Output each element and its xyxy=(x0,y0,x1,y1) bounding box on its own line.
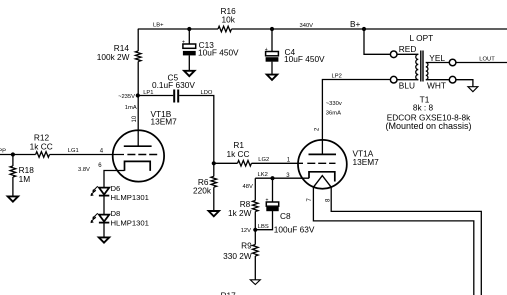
node LP1 junction dot xyxy=(136,93,140,97)
wire R9 leads xyxy=(254,230,256,280)
capacitor C8 xyxy=(266,197,279,211)
svg-text:48V: 48V xyxy=(243,184,253,190)
wire top rail LB+ to B+ and right edge xyxy=(138,28,507,30)
tube VT1B envelope xyxy=(113,130,164,181)
T1 secondary winding xyxy=(426,63,428,80)
terminal BLU xyxy=(390,76,397,83)
ground at WHT xyxy=(468,87,478,92)
resistor R6 xyxy=(211,176,217,187)
ground under C4 xyxy=(267,75,277,80)
svg-text:D6: D6 xyxy=(111,184,121,193)
VT1A filament xyxy=(313,176,331,188)
T1 core xyxy=(421,51,423,82)
svg-text:PP: PP xyxy=(0,149,6,155)
capacitor C13 xyxy=(182,39,196,55)
svg-text:13EM7: 13EM7 xyxy=(151,117,178,127)
label R12 value xyxy=(30,133,53,152)
svg-text:YEL: YEL xyxy=(429,53,445,63)
wire D6 to D8 xyxy=(103,196,105,215)
svg-text:HLMP1301: HLMP1301 xyxy=(111,218,149,227)
resistor R18 xyxy=(10,166,16,177)
junction dot LBS xyxy=(253,228,257,232)
wire C13 leads xyxy=(188,29,190,71)
wire BLU to primary xyxy=(397,79,418,81)
node LP1 label xyxy=(143,90,153,96)
wire LG2 net xyxy=(214,162,303,164)
label R16 value xyxy=(221,6,237,25)
label VT1B xyxy=(151,109,178,127)
junction dot C13/rail xyxy=(187,27,191,31)
label 48V xyxy=(243,184,253,190)
svg-text:10: 10 xyxy=(132,115,138,122)
junction dot B+/rail xyxy=(362,27,366,31)
wire heater pin 8 run xyxy=(331,187,481,295)
wire C4 leads xyxy=(271,29,273,75)
resistor R8 xyxy=(253,201,259,212)
label C4 value xyxy=(284,47,325,64)
node 340V label xyxy=(300,23,314,29)
ground under C13 xyxy=(184,71,194,76)
terminal YEL xyxy=(449,59,456,66)
wire PP input to VT1B grid xyxy=(0,154,124,156)
resistor R9 xyxy=(253,245,259,257)
wire WHT to ground xyxy=(456,80,473,87)
svg-text:LBS: LBS xyxy=(258,224,269,230)
label R18 value xyxy=(19,165,35,184)
node LDO label xyxy=(201,90,213,96)
svg-text:1mA: 1mA xyxy=(125,105,137,111)
wire R8 leads xyxy=(254,178,256,230)
label R8 value xyxy=(228,199,252,218)
wire VT1B cathode to LED chain xyxy=(104,171,125,188)
wire R18 leads xyxy=(12,155,14,197)
svg-text:WHT: WHT xyxy=(427,81,446,91)
label C5 value xyxy=(152,72,195,90)
svg-text:BLU: BLU xyxy=(399,81,415,91)
svg-text:D8: D8 xyxy=(111,209,121,218)
label 8k : 8 xyxy=(413,103,434,113)
resistor R12 xyxy=(36,152,50,158)
svg-text:3.8V: 3.8V xyxy=(78,167,90,173)
svg-text:+: + xyxy=(266,197,269,203)
wire secondary to WHT xyxy=(426,79,450,81)
label -235V xyxy=(118,94,135,100)
label -330v 36mA xyxy=(326,101,342,116)
wire R6 leads xyxy=(213,163,215,211)
svg-text:100k 2W: 100k 2W xyxy=(97,52,130,62)
pin 3 label xyxy=(286,173,290,179)
VT1B grid dashes xyxy=(127,154,157,156)
svg-text:1k CC: 1k CC xyxy=(30,141,53,151)
terminal RED xyxy=(390,51,397,58)
svg-text:C8: C8 xyxy=(280,211,291,221)
pin 1 label xyxy=(287,158,291,164)
label L OPT xyxy=(410,33,434,43)
resistor R1 xyxy=(238,161,252,167)
svg-text:LB+: LB+ xyxy=(153,23,164,29)
pin 7 label xyxy=(307,198,313,202)
label C8 value xyxy=(274,211,315,234)
svg-text:13EM7: 13EM7 xyxy=(353,157,380,167)
wire RED to primary xyxy=(397,53,418,55)
node B+ label xyxy=(350,19,361,29)
svg-text:HLMP1301: HLMP1301 xyxy=(111,193,149,202)
svg-text:0.1uF 630V: 0.1uF 630V xyxy=(152,80,195,90)
svg-text:LG2: LG2 xyxy=(258,157,269,163)
label EDCOR xyxy=(387,113,471,123)
LED D6 xyxy=(91,186,110,196)
pin 2 label VT1A plate xyxy=(314,127,320,131)
pin 6 label xyxy=(98,163,102,169)
off-page arrow below R9 xyxy=(250,280,260,285)
svg-text:R17: R17 xyxy=(221,291,237,295)
wire C5 to LDO corner down to R1/R6 junction xyxy=(179,96,214,164)
label C13 value xyxy=(198,40,239,57)
junction dot C8 top xyxy=(270,176,274,180)
junction dot C4/rail xyxy=(270,27,274,31)
label R14 value xyxy=(97,43,130,62)
svg-text:~235V: ~235V xyxy=(118,94,135,100)
wire LOUT xyxy=(456,62,507,64)
label YEL xyxy=(429,53,445,63)
label 3.8V xyxy=(78,167,90,173)
VT1B cathode xyxy=(125,161,151,171)
svg-text:LOUT: LOUT xyxy=(479,56,495,62)
svg-text:R9: R9 xyxy=(241,241,252,251)
svg-text:12V: 12V xyxy=(241,228,251,234)
tube VT1A envelope xyxy=(298,140,347,189)
pin 10 label VT1B plate xyxy=(132,115,138,122)
wire C8 leads xyxy=(255,178,272,230)
label BLU xyxy=(399,81,415,91)
LED D8 xyxy=(91,213,110,223)
label D6 xyxy=(111,184,149,202)
svg-text:1M: 1M xyxy=(19,174,31,184)
wire B+ to transformer RED xyxy=(364,29,390,54)
svg-text:LK2: LK2 xyxy=(258,172,268,178)
wire heater pin 7 run xyxy=(313,187,473,295)
label R9 value xyxy=(223,241,252,261)
wire D8 to ground xyxy=(103,223,105,238)
pin 8 label xyxy=(326,198,332,202)
label WHT xyxy=(427,81,446,91)
svg-text:10k: 10k xyxy=(222,15,236,25)
wire LP2 net to BLU and VT1A plate xyxy=(322,80,390,155)
label RED xyxy=(399,44,417,54)
VT1A plate bar xyxy=(309,153,337,155)
ground under LEDs xyxy=(99,237,109,242)
svg-text:LP2: LP2 xyxy=(332,73,342,79)
node PP label xyxy=(0,149,6,155)
label R17 clipped at bottom xyxy=(221,291,237,295)
terminal WHT xyxy=(449,76,456,83)
label VT1A xyxy=(353,149,380,167)
svg-text:RED: RED xyxy=(399,44,417,54)
svg-text:(Mounted on chassis): (Mounted on chassis) xyxy=(385,121,471,131)
svg-text:B+: B+ xyxy=(350,19,361,29)
svg-text:10uF 450V: 10uF 450V xyxy=(198,47,239,57)
label T1 xyxy=(420,95,430,105)
svg-text:1k 2W: 1k 2W xyxy=(228,208,252,218)
label D8 xyxy=(111,209,149,227)
capacitor C4 xyxy=(265,47,279,62)
junction dot R18 xyxy=(11,152,15,156)
svg-text:L OPT: L OPT xyxy=(410,33,434,43)
ground under R18 xyxy=(8,196,18,201)
label R1 value xyxy=(226,140,249,159)
label mounted on chassis xyxy=(385,121,471,131)
svg-text:1k CC: 1k CC xyxy=(226,149,249,159)
svg-text:~330v: ~330v xyxy=(326,101,342,107)
node LG1 label xyxy=(68,148,79,154)
VT1B plate bar xyxy=(124,145,152,147)
VT1A grid dashes xyxy=(307,162,335,164)
wire LP1 to C5 xyxy=(138,95,173,97)
resistor R14 xyxy=(135,51,141,62)
node LK2 label xyxy=(258,172,268,178)
node LBS label xyxy=(258,224,269,230)
label 12V xyxy=(241,228,251,234)
node LG2 label xyxy=(258,157,269,163)
svg-text:220k: 220k xyxy=(193,186,212,196)
svg-text:+: + xyxy=(182,39,185,45)
svg-text:8k : 8: 8k : 8 xyxy=(413,103,434,113)
node LOUT label xyxy=(479,56,495,62)
svg-text:330 2W: 330 2W xyxy=(223,251,252,261)
svg-text:10uF 450V: 10uF 450V xyxy=(284,54,325,64)
label 1mA xyxy=(125,105,137,111)
junction dot R1/R6/LDO xyxy=(212,161,216,165)
svg-text:100uF 63V: 100uF 63V xyxy=(274,224,315,234)
resistor R16 xyxy=(218,26,232,32)
label R6 value xyxy=(193,177,212,196)
svg-text:36mA: 36mA xyxy=(326,110,341,116)
wire R14 branch / VT1B plate lead xyxy=(137,29,139,146)
capacitor C5 xyxy=(174,90,178,103)
wire LK2 net xyxy=(255,177,309,179)
pin 4 label xyxy=(100,148,104,154)
VT1A cathode xyxy=(309,172,335,182)
T1 primary winding xyxy=(416,54,419,79)
node LP2 label xyxy=(332,73,342,79)
svg-text:340V: 340V xyxy=(300,23,314,29)
node LB+ label xyxy=(153,23,164,29)
svg-text:LG1: LG1 xyxy=(68,148,79,154)
ground under R6 xyxy=(209,211,219,216)
wire secondary to YEL xyxy=(426,62,450,64)
svg-text:+: + xyxy=(265,47,268,53)
